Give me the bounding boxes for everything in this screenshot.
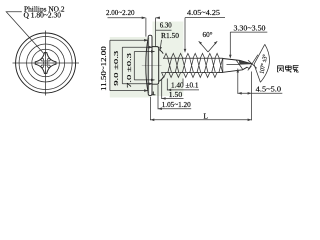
dim bracket 11.50~12.00 — [110, 40, 147, 90]
svg-text:L: L — [204, 111, 209, 120]
head front view circle 3 — [27, 44, 65, 82]
svg-text:4.5~5.0: 4.5~5.0 — [256, 85, 282, 94]
green tint region around head/thread start — [152, 22, 183, 97]
extension L left — [149, 97, 151, 121]
svg-text:1.05~1.20: 1.05~1.20 — [162, 100, 191, 109]
svg-text:60°: 60° — [203, 30, 213, 39]
svg-text:4.05~4.25: 4.05~4.25 — [187, 8, 220, 17]
head side view washer disc — [152, 47, 159, 85]
phillips recess corner bumps — [48, 58, 51, 61]
drill point taper — [223, 59, 253, 73]
head front view centerline vertical — [45, 31, 47, 96]
svg-text:Q 1.80~2.30: Q 1.80~2.30 — [24, 11, 62, 20]
extension 1.40 from crests — [166, 79, 168, 91]
svg-text:3.30~3.50: 3.30~3.50 — [234, 23, 266, 32]
green tint region left of head — [110, 37, 150, 98]
extension line tip / L right — [251, 72, 253, 121]
threads bottom — [162, 73, 223, 78]
extension 3.30 down to point — [229, 32, 231, 55]
char 1 — [278, 66, 284, 72]
phillips recess tip ticks — [35, 53, 56, 74]
svg-text:R1.50: R1.50 — [161, 31, 179, 40]
leader R1.50 — [160, 40, 161, 49]
phillips recess center circle — [43, 61, 48, 66]
drill point flute dark face — [239, 60, 253, 64]
dim bracket 7.0 +-0.3 — [134, 52, 154, 80]
head side view fillet top — [159, 50, 164, 54]
leader Phillips note — [6, 12, 44, 54]
extension 4.05 to thread crest — [184, 18, 186, 52]
svg-text:11.50~12.00: 11.50~12.00 — [100, 46, 108, 91]
extension line head bearing side — [155, 18, 157, 47]
threads top — [163, 53, 223, 58]
head bearing step bottom — [152, 92, 155, 95]
chisel edge notch — [247, 66, 251, 69]
extension 1.05 — [157, 85, 159, 109]
dim bracket 9.0 +-0.3 — [122, 47, 152, 84]
drill point flute — [227, 60, 243, 70]
char 2 — [285, 65, 291, 72]
angle dim 107 leaf — [254, 44, 269, 82]
head axis centerline — [142, 64, 162, 66]
drill tip cross — [248, 55, 258, 71]
thread angle lines — [199, 41, 218, 52]
head front view circle 4 — [32, 49, 60, 77]
head side view dome face — [146, 38, 149, 93]
svg-text:7.0 ±0.3: 7.0 ±0.3 — [126, 52, 133, 88]
leader 6.30 — [156, 29, 172, 31]
shank root lines — [163, 58, 223, 72]
extension 1.50 — [161, 79, 163, 99]
svg-text:6.30: 6.30 — [160, 21, 172, 30]
head side view fillet bottom — [159, 77, 164, 81]
svg-text:1.50: 1.50 — [169, 90, 183, 99]
thread helix lines — [168, 58, 223, 72]
thread runout boundary — [222, 58, 224, 72]
svg-text:9.0 ±0.3: 9.0 ±0.3 — [113, 50, 120, 86]
head side view flange disc — [148, 35, 152, 95]
char 3 — [293, 65, 299, 72]
head front view centerline horizontal — [13, 62, 80, 64]
extension 4.5 left — [237, 69, 239, 94]
label chinese drill-point name — [278, 65, 299, 72]
head front view circle 2 — [19, 37, 72, 90]
phillips recess star — [35, 53, 56, 74]
svg-text:1.40 ±0.1: 1.40 ±0.1 — [171, 81, 199, 90]
extension line head dome apex — [145, 18, 147, 37]
head front view outer circle — [16, 33, 76, 93]
svg-text:2.00~2.20: 2.00~2.20 — [106, 8, 135, 17]
